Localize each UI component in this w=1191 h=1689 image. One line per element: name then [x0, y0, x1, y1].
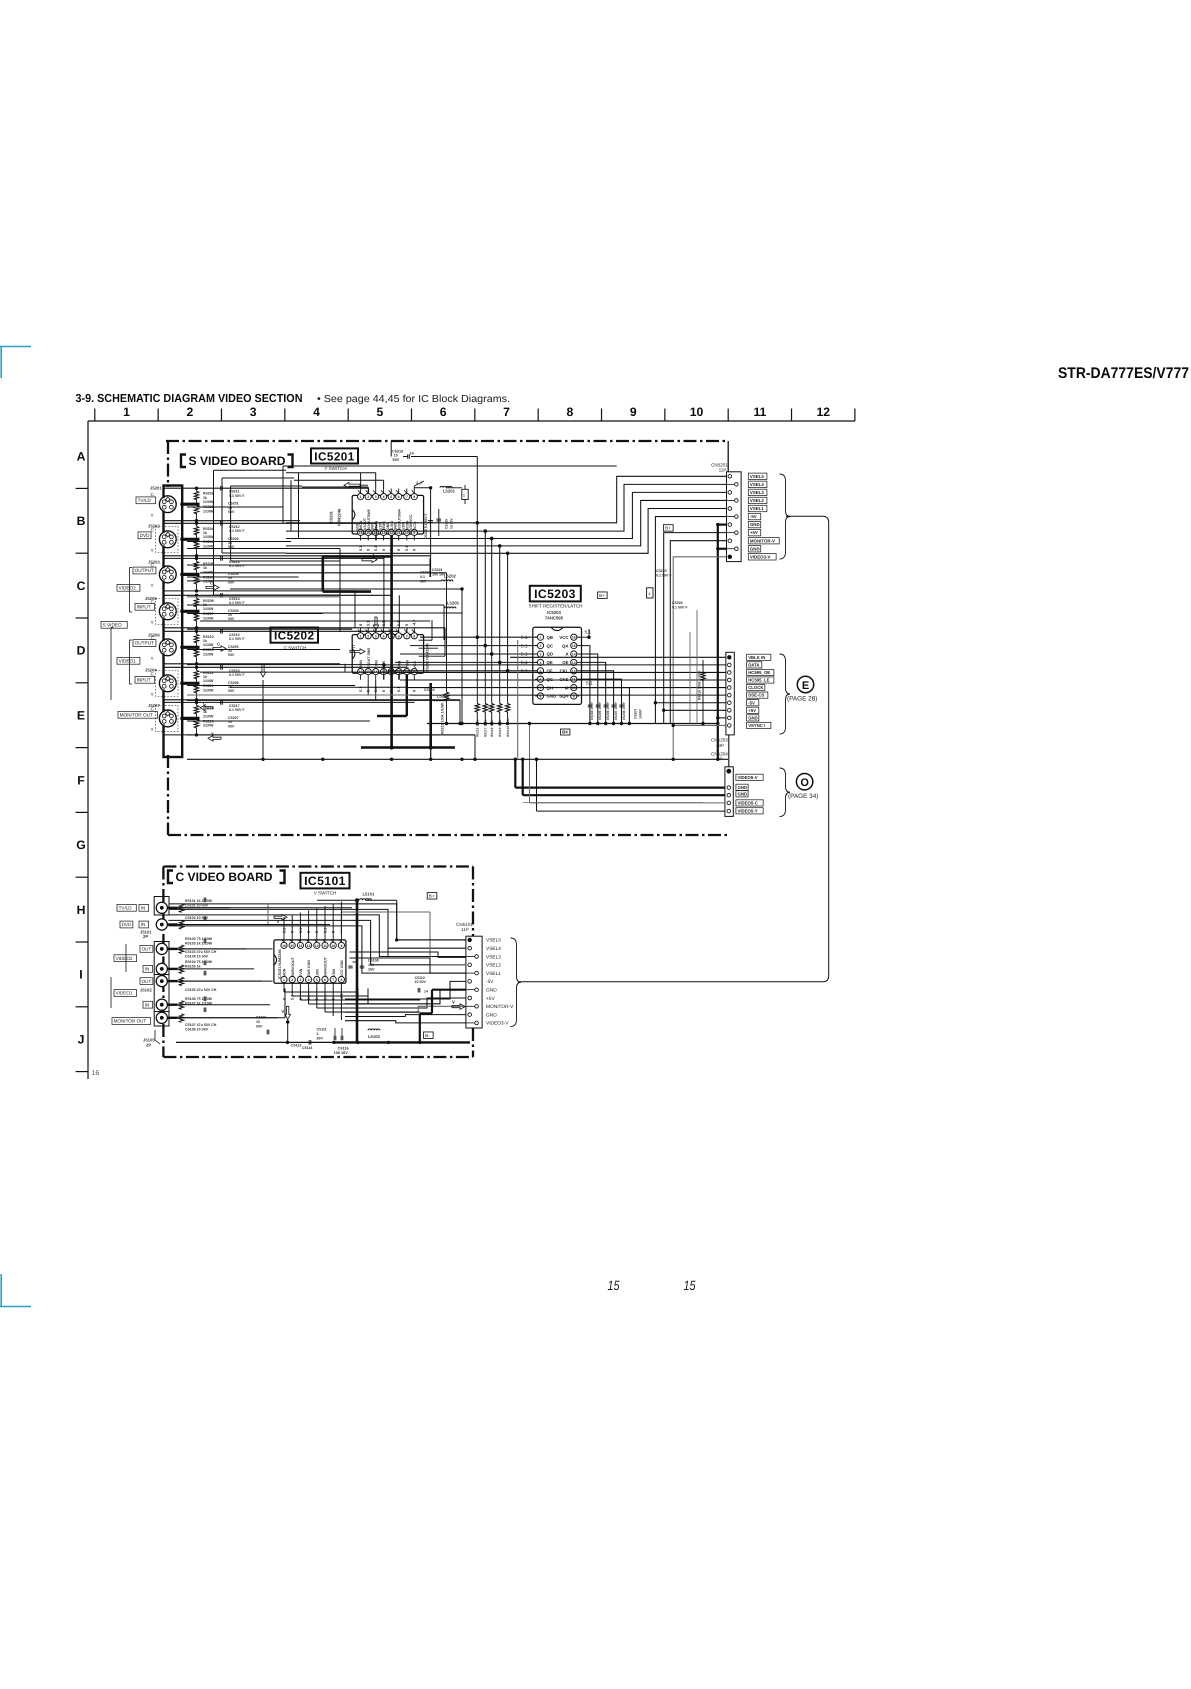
resistor pair jack 4: [194, 598, 199, 607]
wire Y line jack 2: [164, 555, 430, 557]
svg-text:GND: GND: [738, 785, 748, 790]
svg-text:J5102: J5102: [140, 988, 152, 993]
svg-text:+5V: +5V: [748, 708, 756, 713]
svg-text:50V: 50V: [228, 724, 235, 728]
svg-text:C5205 100P: C5205 100P: [598, 701, 602, 720]
svg-text:R5103 1k 1/10W: R5103 1k 1/10W: [185, 941, 213, 945]
svg-text:VSEL3: VSEL3: [750, 490, 764, 495]
CN5203 pin 7: [728, 701, 732, 705]
svg-text:8: 8: [340, 978, 342, 982]
svg-text:OUTPUT: OUTPUT: [135, 641, 154, 646]
svg-text:D: D: [77, 644, 86, 658]
svg-text:J: J: [78, 1033, 85, 1047]
svg-text:100: 100: [368, 963, 374, 967]
IC5201 pins bottom row 16-9: [358, 529, 364, 535]
svg-text:V: V: [277, 919, 280, 924]
svg-text:GND: GND: [486, 988, 497, 994]
svg-text:8: 8: [413, 495, 415, 499]
IC5203 left pins 1-8: [537, 634, 543, 640]
svg-text:1/10W: 1/10W: [203, 535, 214, 539]
svg-text:C5225: C5225: [656, 569, 667, 573]
svg-text:VIDEO3-V: VIDEO3-V: [750, 554, 771, 559]
svg-text:S VIDEO BOARD: S VIDEO BOARD: [189, 454, 286, 468]
CN5203 signal wires: [510, 656, 726, 658]
s-video jack TV/LD: [159, 496, 176, 513]
svg-text:+5V: +5V: [486, 996, 495, 1002]
svg-text:VIDEO5-C: VIDEO5-C: [738, 800, 758, 805]
svg-text:7: 7: [406, 495, 408, 499]
CN5204 net labels: [736, 774, 763, 780]
svg-text:L5102: L5102: [368, 1034, 381, 1039]
svg-text:11P: 11P: [719, 467, 727, 472]
svg-text:Y: Y: [151, 656, 154, 661]
svg-text:0.1 50V F: 0.1 50V F: [229, 494, 245, 498]
connector CN5204 9P: [725, 767, 733, 817]
svg-text:IC5201: IC5201: [314, 449, 354, 463]
svg-text:0: 0: [282, 998, 286, 1000]
svg-text:QB: QB: [547, 635, 553, 640]
svg-text:VIDEO1: VIDEO1: [116, 991, 133, 996]
svg-text:OUT: OUT: [142, 979, 152, 984]
svg-text:DVD: DVD: [122, 922, 132, 927]
svg-text:DVD: DVD: [140, 533, 151, 538]
gray nets C board: [267, 904, 269, 926]
svg-text:VSEL4: VSEL4: [750, 482, 764, 487]
svg-text:I: I: [79, 968, 82, 982]
brace CN5203 nets: [780, 654, 791, 734]
svg-text:50V: 50V: [228, 653, 235, 657]
svg-text:2P: 2P: [146, 1042, 151, 1047]
svg-text:VCC: VCC: [413, 521, 417, 529]
rca jack 6: [156, 999, 167, 1010]
svg-text:QC: QC: [547, 643, 553, 648]
wire stub from dash border to C5210: [390, 441, 392, 457]
arrow right Y bus: [362, 557, 377, 563]
C video board border (dash-dot): [163, 865, 473, 867]
CN5201 pin 6 -5V: [727, 516, 735, 518]
rca jack 1: [156, 902, 167, 913]
svg-text:TV/LD: TV/LD: [119, 905, 133, 910]
svg-text:R52110 100k: R52110 100k: [506, 718, 510, 737]
connector CN5201 11P: [727, 472, 742, 562]
svg-text:15 50V: 15 50V: [450, 518, 454, 529]
capacitor C5220 with vertical feed: [430, 488, 432, 577]
bottom bus line of IC5203 zone: [427, 723, 718, 725]
svg-text:0.1 50V F: 0.1 50V F: [229, 637, 245, 641]
bottom bus C board: [176, 1041, 333, 1043]
ground rail S board: [187, 758, 728, 760]
svg-text:Y: Y: [211, 731, 214, 736]
svg-text:7: 7: [406, 634, 408, 638]
svg-text:C5208 100P: C5208 100P: [622, 701, 626, 720]
svg-text:(PAGE 34): (PAGE 34): [788, 793, 818, 800]
rca jack 3: [156, 943, 167, 954]
svg-text:B4: B4: [562, 730, 568, 735]
svg-text:VIDEO5-V: VIDEO5-V: [738, 775, 758, 780]
rca jack 4: [156, 963, 167, 974]
svg-text:IC5202: IC5202: [274, 629, 314, 643]
svg-text:MON: MON: [283, 968, 287, 977]
svg-text:6: 6: [398, 634, 400, 638]
series capacitor jack 2: [220, 521, 222, 526]
svg-text:L5202: L5202: [444, 573, 457, 578]
svg-text:C VIDEO BOARD: C VIDEO BOARD: [176, 870, 273, 884]
svg-text:C: C: [217, 642, 220, 647]
CN5203 pin 6: [728, 693, 732, 697]
connector CN5101 11P: [466, 936, 482, 1028]
wire GND bus CN5201 pins 7,10: [718, 523, 727, 525]
wire C line jack 1: [164, 487, 369, 489]
svg-text:100 16V: 100 16V: [334, 1051, 349, 1055]
svg-text:7: 7: [503, 405, 510, 419]
svg-text:V2OUTSW4: V2OUTSW4: [397, 509, 401, 529]
IC5101 body (NJM2246 V switch): [274, 940, 346, 983]
resistor pair jack 1: [194, 491, 199, 500]
IC5202 right side stubs: [419, 639, 432, 641]
svg-text:IC5101: IC5101: [304, 874, 346, 888]
svg-text:L5205: L5205: [447, 601, 460, 606]
hollow arrow into IC5201: [344, 482, 360, 488]
lead from border to CN5201: [727, 441, 729, 472]
svg-text:C5112: C5112: [415, 976, 425, 980]
svg-text:V2INVCC: V2INVCC: [409, 514, 413, 530]
arrow into MONITOR-V: [452, 1004, 465, 1010]
svg-text:0: 0: [413, 690, 417, 692]
svg-text:-5V: -5V: [748, 700, 755, 705]
CN5201 pin 8 +5V: [727, 532, 735, 534]
horizontals into IC5201 top pins: [286, 472, 376, 474]
svg-text:10: 10: [331, 944, 335, 948]
ferrite bead FB5203: [647, 588, 653, 598]
thick GND bus from IC5201/IC5202: [390, 536, 393, 748]
svg-text:1: 1: [540, 636, 542, 640]
svg-text:V: V: [452, 999, 455, 1004]
svg-text:CLOCK: CLOCK: [748, 685, 764, 690]
svg-text:1/10W: 1/10W: [203, 688, 214, 692]
op IC5101 label box: [301, 873, 350, 889]
s-video jack DVD: [159, 531, 176, 548]
svg-text:C: C: [203, 701, 206, 706]
left input labels S board: [136, 497, 156, 504]
svg-text:VSIN: VSIN: [405, 660, 409, 669]
wire C line jack 6: [164, 666, 407, 668]
s-video jack INPUT: [159, 675, 176, 692]
svg-text:Y SWITCH: Y SWITCH: [324, 466, 346, 471]
svg-text:50V: 50V: [228, 689, 235, 693]
svg-text:B: B: [77, 514, 86, 528]
C board longer jack feeds: [178, 907, 353, 909]
resistor pair jack 2: [194, 526, 199, 535]
svg-text:11: 11: [323, 944, 327, 948]
svg-text:R5215 100k 1/10W: R5215 100k 1/10W: [698, 670, 702, 700]
svg-text:DSE-CS: DSE-CS: [748, 693, 764, 698]
IC5203 output staircase wires: [579, 646, 590, 724]
svg-text:R5105 1k: R5105 1k: [185, 964, 201, 968]
svg-text:VIDEO2: VIDEO2: [116, 956, 133, 961]
wire +5V from CN5201: [664, 533, 727, 724]
CN5203 pin 4: [728, 678, 732, 682]
svg-text:0: 0: [397, 549, 401, 551]
capacitor row C5204-C5208: [588, 704, 592, 706]
op IC5201 label box: [311, 448, 358, 463]
svg-text:11P: 11P: [461, 927, 469, 932]
svg-text:5.1: 5.1: [521, 669, 528, 675]
svg-text:5: 5: [390, 495, 392, 499]
svg-text:1/10W: 1/10W: [203, 714, 214, 718]
brace CN5201: [780, 474, 791, 559]
svg-text:15: 15: [572, 644, 576, 648]
wire staircase IC5101 to CN5101 upper: [268, 904, 466, 940]
svg-text:CN5203: CN5203: [711, 738, 728, 743]
wire bundle verticals to IC5203 inputs: [476, 523, 478, 637]
svg-text:16: 16: [282, 944, 286, 948]
svg-text:3: 3: [375, 634, 377, 638]
svg-text:0.1 50V F: 0.1 50V F: [229, 601, 245, 605]
svg-text:R5219 100k: R5219 100k: [498, 719, 502, 737]
svg-text:MONITOR OUT: MONITOR OUT: [120, 712, 153, 717]
svg-text:Y: Y: [151, 727, 154, 732]
svg-text:15: 15: [684, 1278, 696, 1293]
svg-text:• See page 44,45 for IC Block: • See page 44,45 for IC Block Diagrams.: [317, 394, 510, 405]
IC5203 VCC stub: [577, 636, 589, 638]
svg-text:1/10W: 1/10W: [203, 724, 214, 728]
s-video jack OUTPUT: [159, 639, 176, 656]
svg-text:1/10W: 1/10W: [203, 509, 214, 513]
svg-text:O: O: [800, 777, 809, 789]
svg-text:GND: GND: [738, 791, 748, 796]
IC5203 right pins 16-9: [571, 634, 577, 640]
svg-text:IN: IN: [141, 905, 146, 910]
CN5201 pin 5 VSEL1: [728, 507, 732, 511]
svg-text:C5113: C5113: [291, 1044, 301, 1048]
svg-text:6: 6: [440, 405, 447, 419]
C board jack feed lines: [178, 907, 231, 909]
svg-text:1: 1: [123, 405, 130, 419]
svg-text:CN5204: CN5204: [711, 751, 728, 756]
wire Y line jack 3: [164, 590, 355, 592]
svg-text:6: 6: [398, 495, 400, 499]
C board jack series components: [179, 904, 184, 913]
svg-text:2: 2: [186, 405, 193, 419]
svg-text:4: 4: [308, 978, 310, 982]
svg-text:3: 3: [540, 653, 542, 657]
interboard cable bundle: [518, 516, 829, 982]
resistor pair jack 3: [194, 561, 199, 570]
svg-text:0.1: 0.1: [420, 575, 425, 579]
series capacitor jack 6: [220, 665, 222, 670]
svg-text:A: A: [77, 449, 86, 463]
svg-text:V SWITCH: V SWITCH: [314, 891, 336, 896]
verticals inside C board mesh: [357, 989, 359, 1000]
IC5101 pins bottom row 1-8: [281, 976, 287, 982]
wire Y line jack 4: [164, 627, 445, 629]
svg-text:E: E: [802, 680, 809, 692]
op IC5202 label box: [271, 628, 319, 643]
svg-text:SW1: SW1: [371, 522, 375, 530]
C board jack housing: [154, 897, 169, 916]
svg-text:10 50V: 10 50V: [415, 980, 427, 984]
svg-text:15: 15: [608, 1278, 620, 1293]
svg-text:VSEL2: VSEL2: [486, 963, 501, 969]
CN5101 pin 4: [468, 963, 472, 967]
svg-text:11: 11: [753, 405, 766, 419]
svg-text:V3IN: V3IN: [332, 969, 336, 977]
svg-text:15: 15: [256, 1020, 260, 1024]
svg-text:SW5V1OUT: SW5V1OUT: [291, 956, 295, 977]
svg-text:SW2: SW2: [394, 522, 398, 530]
svg-text:4: 4: [540, 661, 542, 665]
CN5204 link line from CN5203: [728, 735, 730, 767]
svg-text:GND: GND: [486, 1012, 497, 1018]
CN5203 pin 8: [728, 708, 732, 712]
svg-text:13P: 13P: [716, 743, 724, 748]
svg-text:STR-DA777ES/V777: STR-DA777ES/V777: [1058, 365, 1189, 382]
svg-text:R5101 1k 1/10W: R5101 1k 1/10W: [185, 899, 213, 903]
svg-text:+5V: +5V: [750, 530, 758, 535]
svg-text:5.1: 5.1: [359, 546, 363, 551]
svg-text:0.1 50V F: 0.1 50V F: [672, 605, 688, 609]
svg-text:0.1 50V F: 0.1 50V F: [229, 529, 245, 533]
svg-text:2: 2: [367, 634, 369, 638]
IC5203 body (74HC595): [533, 627, 582, 704]
page reference E circle: [797, 676, 813, 692]
grid ruler vertical: [87, 421, 89, 1079]
svg-text:V1OUT SW5: V1OUT SW5: [367, 648, 371, 669]
series capacitor jack 1: [220, 486, 222, 491]
rca jack 5: [156, 976, 167, 987]
B4 label box: [561, 729, 570, 735]
svg-text:OUTPUT: OUTPUT: [135, 568, 154, 573]
C video board title: [168, 871, 173, 884]
svg-text:SW5 V1IN: SW5 V1IN: [307, 960, 311, 977]
svg-text:10: 10: [690, 405, 704, 419]
wire C line jack 4: [164, 594, 392, 596]
junction dots on bundle crossings: [476, 521, 479, 524]
thick V rail C board: [356, 900, 359, 1042]
svg-text:R5216 100k: R5216 100k: [476, 719, 480, 737]
pull-down resistors R5216-R5220: [476, 637, 478, 703]
svg-text:C5106 15 50V: C5106 15 50V: [185, 1027, 209, 1031]
CN5101 pin 3: [466, 956, 475, 958]
C board mid horizontals to IC pins: [283, 989, 285, 993]
svg-text:-5V: -5V: [750, 514, 757, 519]
B+ / B- / S1 label boxes: [427, 893, 437, 900]
wire Y line jack 6: [164, 699, 460, 701]
svg-text:0.1 50V F: 0.1 50V F: [229, 708, 245, 712]
svg-text:C5116: C5116: [338, 1046, 349, 1050]
svg-text:5.1: 5.1: [374, 546, 378, 551]
C board group bracket lines: [125, 944, 127, 972]
svg-text:0: 0: [359, 624, 363, 626]
CN5201 pin 11 VIDEO3-V: [728, 555, 732, 559]
svg-text:0: 0: [382, 690, 386, 692]
svg-text:R5218 100k: R5218 100k: [490, 719, 494, 737]
verticals joining extra horizontals: [339, 549, 341, 596]
svg-text:C5203: C5203: [634, 709, 638, 719]
resistor pair jack 7: [194, 705, 199, 714]
svg-text:C5220 0.1 50V F: C5220 0.1 50V F: [424, 513, 428, 539]
svg-text:C5226: C5226: [672, 601, 683, 605]
svg-text:9: 9: [340, 944, 342, 948]
svg-text:74HC595: 74HC595: [545, 616, 564, 621]
wire MONITOR-V from CN5201: [670, 541, 726, 724]
svg-text:15: 15: [394, 454, 398, 458]
svg-text:1: 1: [360, 634, 362, 638]
svg-text:7: 7: [332, 978, 334, 982]
svg-text:1/10W: 1/10W: [203, 643, 214, 647]
extra control horizontals between ICs: [187, 548, 340, 550]
svg-text:R5106 75 1/10W: R5106 75 1/10W: [185, 997, 213, 1001]
CN5201 pin 3 VSEL3: [728, 491, 732, 495]
s-video jack INPUT: [159, 603, 176, 620]
wire Y line jack 1: [164, 520, 300, 522]
svg-text:VBLK IN: VBLK IN: [748, 655, 765, 660]
svg-text:Y: Y: [151, 620, 154, 625]
svg-text:VIDEO3-V: VIDEO3-V: [486, 1021, 509, 1027]
svg-text:-5V: -5V: [486, 979, 494, 985]
svg-text:SHIFT REGISTER/LATCH: SHIFT REGISTER/LATCH: [529, 603, 583, 608]
svg-text:VCC: VCC: [559, 635, 568, 640]
svg-text:R5217 100k: R5217 100k: [484, 719, 488, 737]
svg-text:3: 3: [250, 405, 257, 419]
CN5101 pin 11: [466, 1022, 475, 1024]
svg-text:C5114: C5114: [302, 1046, 312, 1050]
thick feeds near CN5101: [432, 989, 466, 991]
CN5201 net name labels: [748, 473, 767, 479]
svg-text:C5207 100P: C5207 100P: [614, 701, 618, 720]
CN5201 pin 10 GND: [727, 548, 735, 550]
CN5203 pin 2: [728, 663, 732, 667]
series capacitor jack 4: [220, 593, 222, 598]
CN5203 pin 5: [728, 686, 732, 690]
svg-text:16V: 16V: [368, 967, 375, 971]
svg-text:INPUT: INPUT: [137, 604, 151, 609]
brace CN5101: [511, 938, 522, 1027]
svg-text:B+: B+: [599, 593, 605, 598]
CN5203 pin 10: [728, 724, 732, 728]
CN5101 pin 1: [468, 938, 472, 942]
C5109 vertical wire: [396, 900, 398, 940]
svg-text:C5111: C5111: [317, 1028, 327, 1032]
svg-text:C5204 100P: C5204 100P: [590, 701, 594, 720]
svg-text:IC5202 NJM2246: IC5202 NJM2246: [426, 643, 430, 673]
svg-text:VSEL1: VSEL1: [750, 506, 764, 511]
svg-text:TVIN: TVIN: [299, 968, 303, 977]
svg-text:F: F: [77, 773, 84, 787]
vertical gray VIDEO5 wires to CN5204: [517, 640, 519, 759]
svg-text:2: 2: [291, 978, 293, 982]
svg-text:L5201: L5201: [443, 488, 456, 493]
CN5101 pin 8: [468, 996, 472, 1000]
svg-text:B+: B+: [665, 526, 671, 531]
svg-text:IC5203: IC5203: [534, 587, 576, 601]
wire -5V from CN5201: [655, 517, 726, 724]
CN5201 pin 9 MONITOR-V: [728, 539, 732, 543]
svg-text:INPUT: INPUT: [137, 677, 151, 682]
svg-text:VSEL2: VSEL2: [750, 498, 764, 503]
svg-text:1/10W: 1/10W: [203, 652, 214, 656]
svg-text:VIDEO5-Y: VIDEO5-Y: [738, 808, 758, 813]
S video board border (dash-dot): [166, 440, 728, 442]
svg-text:C5102 10 50V: C5102 10 50V: [185, 916, 209, 920]
svg-text:3: 3: [299, 978, 301, 982]
series capacitor jack 3: [220, 556, 222, 561]
op IC5203 label box: [530, 586, 581, 602]
svg-text:0: 0: [382, 549, 386, 551]
wires from IC5202 bottom to CN5203 lines: [383, 665, 385, 680]
brace CN5204 nets: [780, 768, 791, 817]
svg-text:Y: Y: [151, 583, 154, 588]
